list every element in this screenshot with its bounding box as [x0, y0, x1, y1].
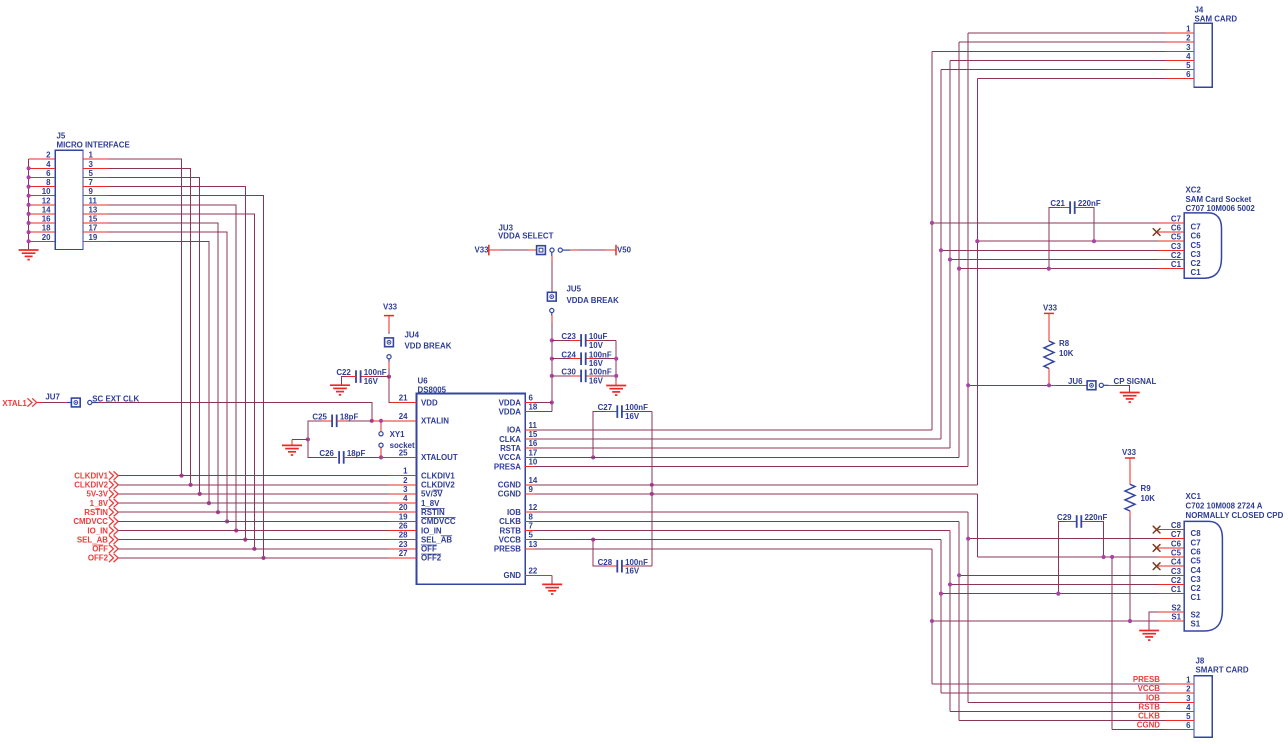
svg-text:CP SIGNAL: CP SIGNAL	[1114, 377, 1157, 386]
svg-text:6: 6	[529, 394, 534, 403]
pin circle JU7 right	[88, 400, 92, 404]
jumper JU3	[537, 246, 546, 255]
svg-text:12: 12	[529, 503, 538, 512]
svg-text:C7: C7	[1171, 530, 1182, 539]
wire RSTB to J8 pin 4	[950, 710, 1166, 712]
wire C21 right rail	[1075, 208, 1094, 242]
wire C29 left rail	[1058, 522, 1076, 594]
pin wire J5-10	[29, 195, 56, 197]
junction gnd rail / C30	[614, 374, 618, 378]
svg-text:SEL_AB: SEL_AB	[421, 535, 452, 544]
pin stub J8-1	[1166, 683, 1195, 685]
junction C28 / VCCB	[591, 538, 595, 542]
svg-text:IOA: IOA	[507, 426, 521, 435]
svg-text:VDD: VDD	[421, 398, 438, 407]
svg-text:S1: S1	[1171, 613, 1181, 622]
junction J5 pin 15 / label row	[216, 510, 220, 514]
svg-text:1: 1	[1186, 25, 1191, 34]
pin stub J4-3	[1166, 50, 1195, 52]
pin stub XC2 C2	[1158, 259, 1184, 261]
wire VCCB vertical	[940, 540, 942, 694]
junction J5 pin 19 / label row	[207, 501, 211, 505]
svg-text:socket: socket	[390, 441, 415, 450]
svg-text:C1: C1	[1171, 260, 1182, 269]
wire CLKA row	[535, 438, 942, 440]
wire J5 pin 11 route	[109, 205, 237, 531]
svg-text:V33: V33	[383, 303, 398, 312]
wire VDDA pin6	[535, 402, 552, 404]
ground CP SIGNAL	[1120, 393, 1140, 403]
svg-text:C4: C4	[1191, 566, 1202, 575]
junction J5 pin 9 / label row	[261, 556, 265, 560]
svg-text:IO_IN: IO_IN	[421, 526, 442, 535]
pin circle XY1 top	[379, 432, 383, 436]
svg-text:JU6: JU6	[1068, 377, 1083, 386]
junction XY1 bottom / XTALOUT	[379, 455, 383, 459]
junction J5 pin 1 / label row	[179, 474, 183, 478]
wire 5V-3V row	[118, 493, 388, 495]
wire C28 left	[593, 540, 617, 567]
jumper JU6	[1087, 381, 1096, 390]
svg-text:XC1: XC1	[1186, 492, 1202, 501]
wire SEL_AB row	[118, 539, 388, 541]
svg-text:RSTIN: RSTIN	[421, 508, 445, 517]
svg-text:16V: 16V	[625, 412, 640, 421]
power symbol V33 R8	[1044, 312, 1054, 314]
svg-text:RSTB: RSTB	[500, 526, 522, 535]
svg-text:V33: V33	[475, 246, 490, 255]
wire C30 right	[586, 375, 617, 377]
junction rail / C24	[550, 357, 554, 361]
pin stub XC1 C4	[1158, 565, 1184, 567]
capacitor C22	[356, 370, 361, 383]
svg-text:C6: C6	[1171, 224, 1182, 233]
svg-text:12: 12	[42, 196, 51, 205]
svg-text:XTALOUT: XTALOUT	[421, 453, 458, 462]
svg-text:C27: C27	[598, 403, 613, 412]
no-connect XC1 C6	[1153, 545, 1160, 552]
pin stub J4-5	[1166, 69, 1195, 71]
connector J4 SAM CARD	[1194, 23, 1212, 87]
wire RSTA vertical	[949, 60, 951, 448]
wire RSTA to XC2 C2	[950, 259, 1158, 261]
svg-text:100nF: 100nF	[625, 558, 648, 567]
wire PRESB to XC1 S1	[932, 620, 1158, 622]
svg-text:VCCA: VCCA	[499, 453, 522, 462]
svg-text:C6: C6	[1191, 232, 1202, 241]
svg-text:CLKDIV1: CLKDIV1	[421, 471, 455, 480]
wire C23 right	[586, 339, 617, 341]
svg-text:CGND: CGND	[1137, 721, 1161, 730]
svg-text:100nF: 100nF	[625, 403, 648, 412]
wire CLKA to XC2 C3	[941, 249, 1158, 251]
no-connect XC1 C4	[1153, 563, 1160, 570]
svg-text:VDDA BREAK: VDDA BREAK	[567, 296, 620, 305]
svg-text:S2: S2	[1191, 611, 1201, 620]
wire J5 pin 3 route	[109, 168, 191, 485]
wire PRESA to J4 pin 1	[968, 32, 1165, 34]
svg-text:26: 26	[399, 522, 408, 531]
pin stub J4-4	[1166, 59, 1195, 61]
net chevron RSTIN	[109, 508, 118, 516]
wire JU5 to VDDA rail	[551, 313, 553, 316]
net chevron 5V-3V	[109, 490, 118, 498]
svg-text:19: 19	[399, 512, 408, 521]
wire SC EXT CLK	[92, 402, 100, 404]
pin stub J4-6	[1166, 78, 1195, 80]
svg-text:9: 9	[529, 485, 534, 494]
capacitor C23	[581, 334, 586, 347]
junction C21 / C5 row	[1092, 239, 1096, 243]
wire RSTB to XC1 C2	[950, 584, 1158, 586]
junction IOA / XC2 C7	[930, 221, 934, 225]
junction J5 pin 5 / label row	[198, 492, 202, 496]
svg-text:14: 14	[42, 205, 51, 214]
svg-text:2: 2	[403, 476, 408, 485]
wire V33 to R9	[1129, 458, 1131, 484]
svg-text:V50: V50	[617, 246, 632, 255]
junction rail / VDDA6	[550, 400, 554, 404]
svg-text:24: 24	[399, 412, 408, 421]
jumper JU7	[71, 398, 80, 407]
svg-text:21: 21	[399, 394, 408, 403]
wire V33 to JU3	[489, 249, 500, 251]
no-connect XC2 C6	[1153, 229, 1160, 236]
pin wire J5-20	[29, 240, 56, 242]
svg-text:C30: C30	[561, 368, 576, 377]
svg-text:V33: V33	[1122, 448, 1137, 457]
net chevron SEL_AB	[109, 535, 118, 543]
no-connect XC1 C8	[1153, 526, 1160, 533]
svg-text:C23: C23	[561, 332, 576, 341]
pin stub XC1 C8	[1158, 529, 1184, 531]
wire JU4 to VDD node	[388, 359, 390, 362]
svg-text:MICRO INTERFACE: MICRO INTERFACE	[57, 140, 130, 149]
junction J5 rail row 20	[27, 239, 31, 243]
wire C24 right	[586, 358, 617, 360]
svg-text:J5: J5	[57, 132, 66, 141]
svg-text:10K: 10K	[1059, 349, 1074, 358]
junction J5 pin 17 / label row	[225, 519, 229, 523]
pin stub J8-6	[1166, 729, 1195, 731]
pin stub XC2 C5	[1158, 240, 1184, 242]
svg-text:R8: R8	[1059, 339, 1070, 348]
wire J5 pin 7 route	[109, 187, 246, 540]
net chevron CLKDIV1	[109, 471, 118, 479]
wire J5 pin 5 route	[109, 177, 200, 494]
wire CLKA vertical	[940, 70, 942, 440]
svg-text:16V: 16V	[625, 567, 640, 576]
wire OFF row	[118, 548, 388, 550]
svg-text:XTAL1: XTAL1	[2, 399, 27, 408]
wire OFF2 row	[118, 557, 388, 559]
svg-text:C25: C25	[312, 412, 327, 421]
wire PRESB to J8 pin 1	[932, 683, 1166, 685]
wire RSTIN row	[118, 511, 388, 513]
svg-text:OFF: OFF	[421, 545, 437, 554]
svg-text:CGND: CGND	[498, 490, 522, 499]
wire CGND pin9 row	[535, 493, 978, 495]
svg-text:C22: C22	[336, 368, 351, 377]
capacitor C27	[617, 405, 622, 418]
ground U6 GND	[542, 584, 562, 594]
svg-text:C1: C1	[1171, 585, 1182, 594]
svg-text:3: 3	[89, 160, 94, 169]
svg-text:OFF2: OFF2	[88, 554, 109, 563]
svg-text:16V: 16V	[364, 377, 379, 386]
svg-text:5V/3V: 5V/3V	[421, 490, 443, 499]
junction rail / C23	[550, 338, 554, 342]
pin stub J5-3	[83, 167, 109, 169]
pin stub J4-1	[1166, 32, 1195, 34]
junction J5 pin 11 / label row	[234, 528, 238, 532]
svg-text:OFF2: OFF2	[421, 554, 442, 563]
svg-text:C702 10M008 2724 A: C702 10M008 2724 A	[1186, 502, 1263, 511]
junction CGND / XC2 C5	[975, 239, 979, 243]
svg-text:13: 13	[529, 540, 538, 549]
junction C29 / C5 row	[1102, 555, 1106, 559]
svg-text:CGND: CGND	[498, 481, 522, 490]
svg-text:V33: V33	[1043, 304, 1058, 313]
junction CLKB / XC1 C3	[957, 573, 961, 577]
wire PRESB vertical	[931, 549, 933, 684]
svg-text:2: 2	[1186, 685, 1191, 694]
net chevron 1_8V	[109, 499, 118, 507]
wire XY1 ground stem	[291, 439, 293, 445]
svg-text:7: 7	[529, 522, 534, 531]
wire VDDA rail	[551, 340, 553, 411]
svg-text:6: 6	[1186, 70, 1191, 79]
svg-text:JU7: JU7	[45, 393, 60, 402]
svg-text:3: 3	[403, 485, 408, 494]
wire CGND to XC1 C5	[977, 556, 1158, 558]
svg-text:11: 11	[529, 421, 538, 430]
pin wire J5-16	[29, 222, 56, 224]
pin stub J5-1	[83, 158, 109, 160]
pin circle JU6 right	[1099, 383, 1103, 387]
svg-text:15: 15	[89, 215, 98, 224]
wire CGND to XC2 C5	[977, 240, 1158, 242]
junction SC EXT CLK / XTALIN	[370, 419, 374, 423]
svg-text:RSTA: RSTA	[500, 444, 521, 453]
wire VCCA row	[535, 456, 960, 458]
net chevron XTAL1	[27, 398, 36, 406]
power symbol V33 JU3	[488, 245, 490, 256]
svg-text:10uF: 10uF	[589, 332, 608, 341]
junction J5 rail row 4	[27, 166, 31, 170]
junction CLKA / XC2 C3	[939, 248, 943, 252]
svg-text:RSTIN: RSTIN	[84, 508, 108, 517]
pin wire J5-8	[29, 186, 56, 188]
svg-text:16: 16	[42, 215, 51, 224]
wire 1_8V row	[118, 502, 388, 504]
wire PRESA to R8 node	[968, 384, 1049, 386]
junction R8 / JU6	[1047, 383, 1051, 387]
pin wire J5-6	[29, 176, 56, 178]
junction rail / C30	[550, 374, 554, 378]
wire VDDA pin18	[535, 411, 552, 413]
pin stub J8-2	[1166, 692, 1195, 694]
wire C30 left	[552, 375, 581, 377]
capacitor C25	[332, 415, 337, 428]
resistor R8	[1044, 341, 1054, 369]
svg-text:RSTB: RSTB	[1139, 702, 1161, 711]
junction C21 / C1 row	[1047, 267, 1051, 271]
svg-text:C1: C1	[1191, 268, 1202, 277]
wire J5 pin 13 route	[109, 214, 255, 549]
svg-text:5V-3V: 5V-3V	[87, 490, 109, 499]
wire V33 to JU4	[388, 316, 390, 333]
svg-text:C8: C8	[1191, 529, 1202, 538]
wire J5 ground rail	[28, 159, 30, 241]
svg-text:C21: C21	[1050, 199, 1065, 208]
svg-text:100nF: 100nF	[589, 350, 612, 359]
svg-text:C7: C7	[1191, 538, 1202, 547]
svg-text:CLKDIV1: CLKDIV1	[74, 471, 108, 480]
svg-text:C7: C7	[1171, 214, 1182, 223]
wire RSTA row	[535, 447, 951, 449]
svg-text:7: 7	[89, 178, 94, 187]
svg-text:18: 18	[529, 403, 538, 412]
wire R8 to node	[1048, 369, 1050, 386]
socket XY1 bottom pin	[380, 447, 382, 457]
junction IOB / XC1 C7	[966, 537, 970, 541]
wire C25 rail	[308, 421, 335, 458]
wire IOB row	[535, 511, 969, 513]
junction J5 rail row 10	[27, 194, 31, 198]
svg-text:220nF: 220nF	[1085, 513, 1108, 522]
pin circle JU4 bottom	[387, 355, 391, 359]
wire J5 pin 19 route	[109, 241, 209, 503]
svg-text:C7: C7	[1191, 223, 1202, 232]
junction J5 rail row 14	[27, 212, 31, 216]
pin wire J5-4	[29, 167, 56, 169]
capacitor C30	[581, 370, 586, 383]
wire JU6 to CP SIGNAL ground	[1103, 384, 1108, 386]
svg-text:6: 6	[46, 169, 51, 178]
pin stub XC1 C6	[1158, 547, 1184, 549]
svg-text:9: 9	[89, 187, 94, 196]
net chevron OFF2	[109, 554, 118, 562]
junction J5 pin 7 / label row	[243, 538, 247, 542]
svg-text:8: 8	[529, 512, 534, 521]
wire VCCB to XC1 C1	[941, 593, 1158, 595]
wire C23 left	[552, 339, 581, 341]
wire J5 pin 1 route	[109, 159, 182, 475]
svg-text:17: 17	[529, 448, 538, 457]
pin stub J5-15	[83, 222, 109, 224]
svg-text:20: 20	[399, 503, 408, 512]
svg-text:15: 15	[529, 430, 538, 439]
svg-text:S2: S2	[1171, 603, 1181, 612]
wire node to VDD pin 21	[389, 377, 391, 403]
svg-text:VDDA SELECT: VDDA SELECT	[498, 232, 554, 241]
wire V33 to R8	[1048, 313, 1050, 341]
junction RSTA / XC2 C2	[948, 257, 952, 261]
svg-text:JU4: JU4	[405, 330, 420, 339]
junction RSTB / XC1 C2	[948, 582, 952, 586]
pin stub XC2 C7	[1158, 222, 1184, 224]
svg-text:C5: C5	[1191, 557, 1202, 566]
wire XTAL1 to JU7	[37, 402, 42, 404]
svg-text:100nF: 100nF	[364, 368, 387, 377]
wire CLKB vertical	[958, 521, 960, 720]
svg-text:CLKA: CLKA	[499, 435, 521, 444]
svg-text:19: 19	[89, 233, 98, 242]
capacitor C21	[1070, 201, 1075, 214]
svg-text:VCCB: VCCB	[499, 535, 522, 544]
junction VCCA / XC2 C1	[957, 267, 961, 271]
wire C27 right	[622, 411, 652, 413]
wire C23/24/30 ground rail	[615, 340, 617, 381]
ground VDDA caps	[606, 386, 626, 396]
svg-text:GND: GND	[503, 571, 521, 580]
wire IOA to J4 pin 3	[932, 50, 1166, 52]
pin circle JU5 bottom	[550, 308, 554, 312]
svg-text:18: 18	[42, 224, 51, 233]
wire CLKDIV1 row	[118, 475, 388, 477]
pin circle JU3 right	[558, 248, 562, 252]
svg-text:SEL_AB: SEL_AB	[77, 535, 108, 544]
jumper JU5	[547, 292, 556, 301]
svg-text:10: 10	[42, 187, 51, 196]
svg-text:C29: C29	[1057, 513, 1072, 522]
ground C22	[330, 385, 350, 395]
svg-text:J4: J4	[1195, 6, 1204, 15]
svg-text:C26: C26	[319, 449, 334, 458]
svg-text:C707 10M006 5002: C707 10M006 5002	[1186, 204, 1256, 213]
svg-text:VDD BREAK: VDD BREAK	[405, 342, 452, 351]
svg-text:XY1: XY1	[390, 430, 406, 439]
wire CGND to J8 pin 6	[1112, 729, 1165, 731]
svg-text:C24: C24	[561, 350, 576, 359]
wire CGND pin9 drop	[976, 494, 978, 557]
svg-text:OFF: OFF	[92, 545, 108, 554]
wire XC1 S2 to ground	[1149, 612, 1158, 631]
svg-text:10: 10	[529, 458, 538, 467]
junction J5 pin 3 / label row	[189, 483, 193, 487]
pin stub XC2 C6	[1158, 231, 1184, 233]
connector J8 SMART CARD	[1194, 676, 1212, 738]
wire IOA vertical	[931, 51, 933, 430]
capacitor C28	[617, 560, 622, 573]
junction J5 rail row 8	[27, 185, 31, 189]
svg-text:C6: C6	[1171, 539, 1182, 548]
pin circle JU3 middle	[550, 248, 554, 252]
svg-text:C3: C3	[1191, 575, 1202, 584]
svg-text:28: 28	[399, 531, 408, 540]
wire IOA to XC2 C7	[932, 222, 1158, 224]
wire CLKB to XC1 C3	[959, 574, 1158, 576]
pin stub XC2 C1	[1158, 268, 1184, 270]
svg-text:1: 1	[403, 467, 408, 476]
wire CGND pin14 long	[535, 484, 978, 486]
net chevron CMDVCC	[109, 517, 118, 525]
wire CLKB row	[535, 520, 960, 522]
junction JU4 / C22 / VDD	[387, 375, 391, 379]
svg-text:C3: C3	[1171, 242, 1182, 251]
svg-text:IOB: IOB	[1146, 693, 1160, 702]
wire J5 pin 17 route	[109, 232, 227, 521]
pin stub J5-17	[83, 231, 109, 233]
socket XC2	[1184, 213, 1221, 278]
svg-text:220nF: 220nF	[1078, 199, 1101, 208]
junction PRESA / R8	[966, 383, 970, 387]
svg-text:C4: C4	[1171, 558, 1182, 567]
svg-text:16V: 16V	[589, 376, 604, 385]
svg-text:4: 4	[1186, 52, 1191, 61]
junction R9 / S1	[1128, 619, 1132, 623]
